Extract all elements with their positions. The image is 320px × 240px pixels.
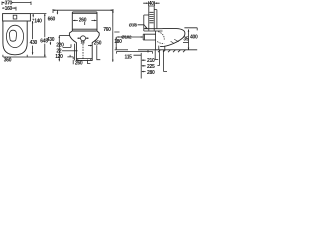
svg-text:35: 35 <box>183 37 188 43</box>
svg-text:760: 760 <box>103 27 111 33</box>
svg-text:260: 260 <box>75 60 83 66</box>
svg-text:280: 280 <box>147 70 155 76</box>
svg-text:160: 160 <box>5 6 13 12</box>
svg-text:180: 180 <box>114 39 122 45</box>
svg-text:40: 40 <box>149 1 154 7</box>
svg-text:140: 140 <box>34 18 42 24</box>
svg-text:Ø3/8: Ø3/8 <box>129 22 138 27</box>
svg-text:260: 260 <box>79 17 87 23</box>
svg-text:430: 430 <box>47 37 55 43</box>
svg-text:430: 430 <box>30 40 38 46</box>
svg-text:115: 115 <box>125 55 133 61</box>
svg-text:250: 250 <box>94 41 102 47</box>
svg-text:400: 400 <box>190 35 198 41</box>
svg-text:Ø102: Ø102 <box>121 35 132 40</box>
svg-text:120: 120 <box>55 54 63 60</box>
svg-text:660: 660 <box>48 16 56 22</box>
svg-text:360: 360 <box>4 58 12 64</box>
